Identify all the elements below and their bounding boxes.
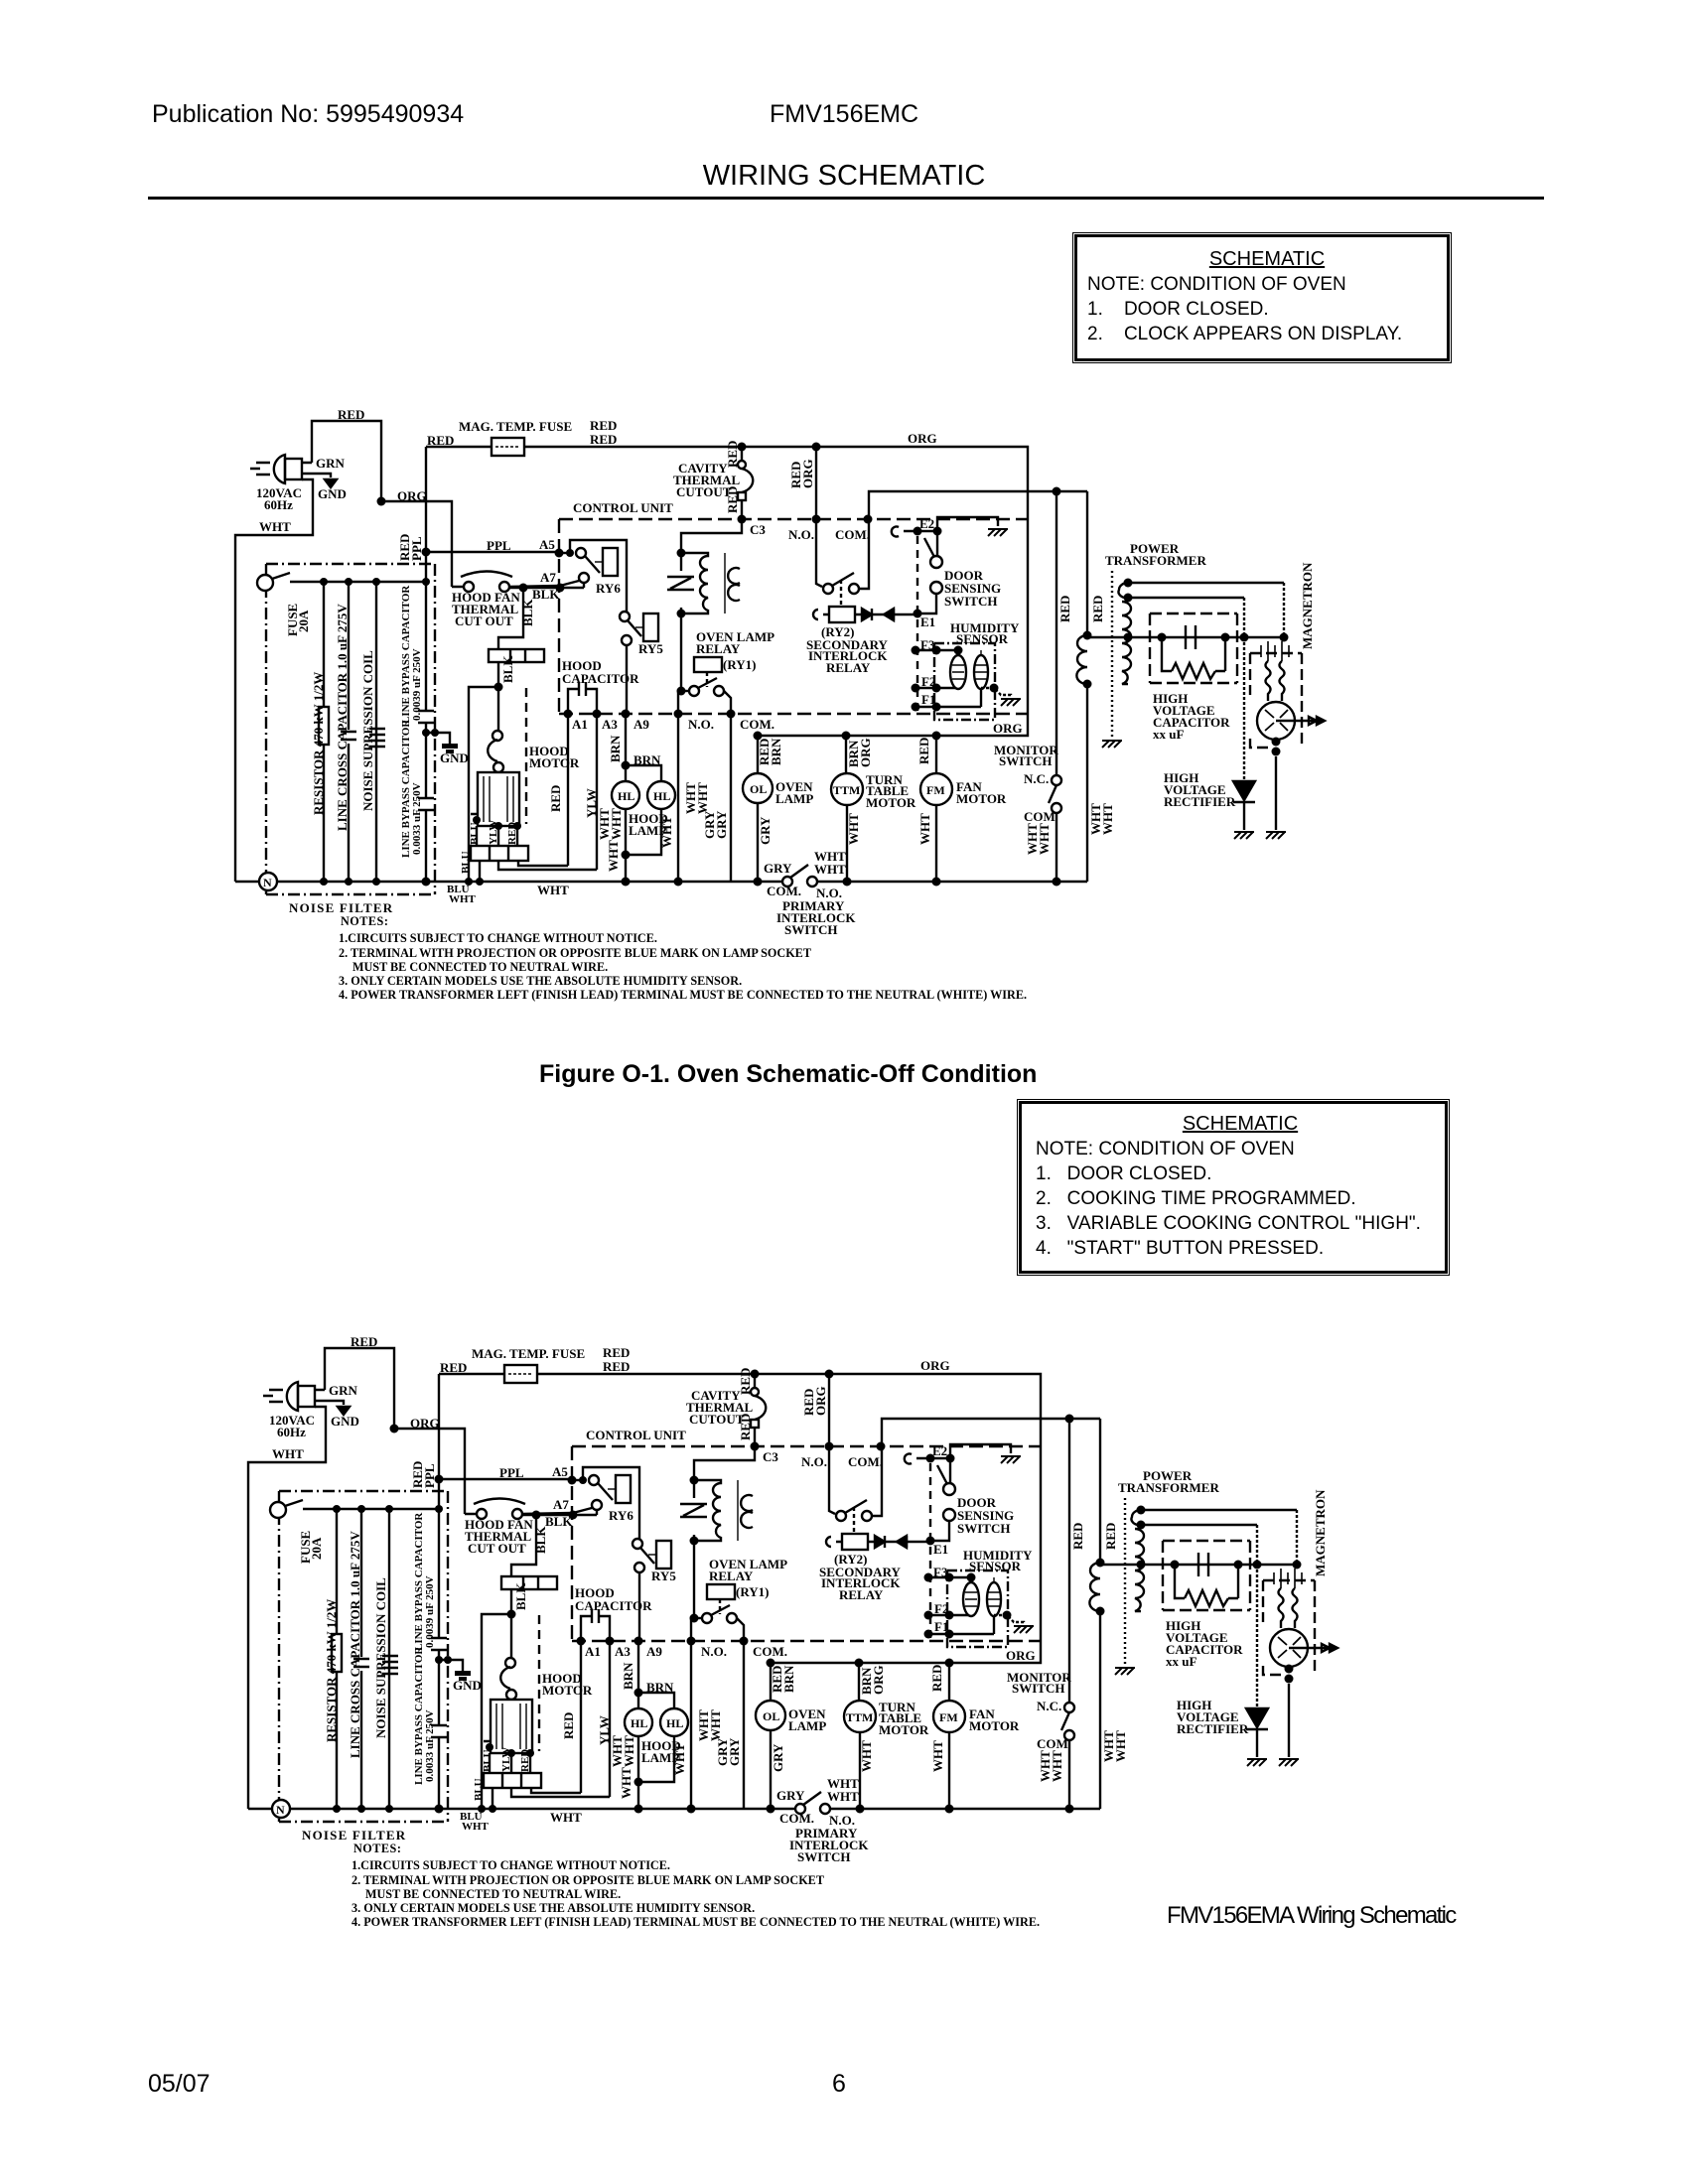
svg-text:CUT OUT: CUT OUT <box>455 614 513 628</box>
svg-text:COM.: COM. <box>767 884 801 898</box>
svg-text:BLU: BLU <box>469 822 481 845</box>
svg-text:SWITCH: SWITCH <box>784 922 837 937</box>
svg-text:xx uF: xx uF <box>1153 727 1184 742</box>
svg-text:SENSOR: SENSOR <box>956 631 1009 646</box>
svg-text:NOISE SUPRESSION COIL: NOISE SUPRESSION COIL <box>360 650 375 811</box>
svg-text:GRN: GRN <box>316 456 346 471</box>
svg-text:RED: RED <box>1057 596 1072 622</box>
svg-text:COM.: COM. <box>740 717 774 732</box>
svg-text:HL: HL <box>653 789 670 803</box>
svg-text:GRY: GRY <box>764 861 792 876</box>
svg-text:GND: GND <box>318 486 347 501</box>
svg-text:N.O.: N.O. <box>688 717 714 732</box>
svg-text:RED: RED <box>916 738 931 764</box>
svg-text:SWITCH: SWITCH <box>944 594 997 609</box>
svg-text:RELAY: RELAY <box>826 660 871 675</box>
svg-text:TTM: TTM <box>833 783 860 797</box>
svg-text:TRANSFORMER: TRANSFORMER <box>1105 553 1206 568</box>
svg-text:F2: F2 <box>921 674 935 689</box>
svg-text:YLW: YLW <box>488 820 499 845</box>
svg-text:RED: RED <box>590 432 617 447</box>
svg-text:HL: HL <box>618 789 634 803</box>
svg-text:RED: RED <box>548 785 563 812</box>
svg-text:RED: RED <box>1090 596 1105 622</box>
svg-text:RELAY: RELAY <box>696 641 741 656</box>
svg-text:GRY: GRY <box>758 816 773 845</box>
svg-text:(RY1): (RY1) <box>723 657 756 672</box>
svg-text:RED: RED <box>427 433 454 448</box>
svg-text:CAPACITOR: CAPACITOR <box>562 671 639 686</box>
svg-text:MUST BE CONNECTED TO NEUTRAL W: MUST BE CONNECTED TO NEUTRAL WIRE. <box>352 960 608 974</box>
svg-text:COM.: COM. <box>835 527 870 542</box>
svg-text:RED: RED <box>590 418 617 433</box>
svg-text:RED: RED <box>725 441 740 468</box>
svg-text:COM: COM <box>1024 809 1055 824</box>
svg-text:CUTOUT: CUTOUT <box>676 484 732 499</box>
svg-text:BRN: BRN <box>769 738 783 765</box>
svg-text:WHT: WHT <box>537 883 569 897</box>
svg-text:BRN: BRN <box>633 752 661 767</box>
svg-text:1.CIRCUITS SUBJECT TO CHANGE W: 1.CIRCUITS SUBJECT TO CHANGE WITHOUT NOT… <box>339 931 657 945</box>
svg-text:60Hz: 60Hz <box>264 497 293 512</box>
svg-text:WHT: WHT <box>449 893 477 905</box>
svg-text:N.C.: N.C. <box>1024 771 1049 786</box>
svg-text:A5: A5 <box>539 537 555 552</box>
svg-text:LAMP: LAMP <box>775 791 813 806</box>
svg-text:GRY: GRY <box>714 810 729 839</box>
svg-text:PPL: PPL <box>409 536 424 561</box>
svg-text:RECTIFIER: RECTIFIER <box>1164 794 1236 809</box>
svg-text:A1: A1 <box>572 717 588 732</box>
svg-text:2. TERMINAL WITH PROJECTION OR: 2. TERMINAL WITH PROJECTION OR OPPOSITE … <box>339 946 811 960</box>
svg-text:SWITCH: SWITCH <box>999 753 1052 768</box>
svg-text:WHT: WHT <box>814 862 846 877</box>
svg-text:LINE CROSS CAPACITOR 1.0 uF 27: LINE CROSS CAPACITOR 1.0 uF 275V <box>335 604 350 831</box>
svg-text:BLK: BLK <box>532 587 560 602</box>
svg-text:ORG: ORG <box>993 721 1023 736</box>
svg-text:FM: FM <box>926 783 945 797</box>
svg-text:MOTOR: MOTOR <box>956 791 1007 806</box>
svg-text:A3: A3 <box>602 717 618 732</box>
svg-text:WHT: WHT <box>1037 823 1052 855</box>
svg-text:ORG: ORG <box>800 459 815 488</box>
svg-text:MAG. TEMP. FUSE: MAG. TEMP. FUSE <box>459 419 572 434</box>
svg-text:WHT: WHT <box>609 808 624 840</box>
svg-text:RED: RED <box>725 486 740 513</box>
svg-text:NOTES:: NOTES: <box>341 914 388 928</box>
svg-text:A9: A9 <box>633 717 649 732</box>
svg-text:OL: OL <box>750 782 767 796</box>
svg-text:N.O.: N.O. <box>788 527 814 542</box>
svg-text:NOISE FILTER: NOISE FILTER <box>289 900 393 915</box>
svg-text:WHT: WHT <box>917 813 932 845</box>
svg-text:ORG: ORG <box>858 738 873 767</box>
svg-text:WHT: WHT <box>1100 803 1115 835</box>
svg-text:MAGNETRON: MAGNETRON <box>1300 562 1315 649</box>
svg-text:F3: F3 <box>920 637 935 652</box>
svg-text:GND: GND <box>440 751 469 765</box>
svg-text:WHT: WHT <box>606 840 621 872</box>
svg-text:RY6: RY6 <box>596 581 621 596</box>
svg-text:N: N <box>263 876 272 889</box>
svg-text:20A: 20A <box>296 610 311 632</box>
svg-text:0.0039 uF 250V: 0.0039 uF 250V <box>411 648 423 721</box>
svg-text:RESISTOR 470 kW 1/2W: RESISTOR 470 kW 1/2W <box>311 672 326 815</box>
svg-text:MOTOR: MOTOR <box>529 755 580 770</box>
svg-text:4. POWER TRANSFORMER LEFT (FIN: 4. POWER TRANSFORMER LEFT (FINISH LEAD) … <box>339 988 1027 1002</box>
svg-text:CONTROL UNIT: CONTROL UNIT <box>573 500 673 515</box>
svg-text:0.0033 uF 250V: 0.0033 uF 250V <box>411 782 423 855</box>
svg-text:C3: C3 <box>750 522 766 537</box>
svg-text:ORG: ORG <box>908 431 937 446</box>
svg-text:BRN: BRN <box>608 735 623 762</box>
svg-text:PPL: PPL <box>487 538 511 553</box>
svg-text:E1: E1 <box>920 614 935 629</box>
svg-text:MOTOR: MOTOR <box>866 795 916 810</box>
svg-text:RED: RED <box>338 407 364 422</box>
svg-text:WHT: WHT <box>695 782 710 814</box>
svg-text:F1: F1 <box>921 692 935 707</box>
svg-text:BLK: BLK <box>500 655 515 683</box>
svg-text:ORG: ORG <box>397 488 427 503</box>
svg-text:BLU: BLU <box>460 851 472 874</box>
svg-text:RED: RED <box>506 822 518 845</box>
svg-text:3. ONLY CERTAIN MODELS USE THE: 3. ONLY CERTAIN MODELS USE THE ABSOLUTE … <box>339 974 742 988</box>
svg-text:E2: E2 <box>919 516 934 531</box>
svg-text:WHT: WHT <box>846 813 861 845</box>
svg-text:RY5: RY5 <box>638 641 663 656</box>
svg-text:WHT: WHT <box>259 519 291 534</box>
svg-text:BLK: BLK <box>520 599 535 626</box>
svg-text:A7: A7 <box>540 570 556 585</box>
svg-text:WHT: WHT <box>659 816 674 848</box>
